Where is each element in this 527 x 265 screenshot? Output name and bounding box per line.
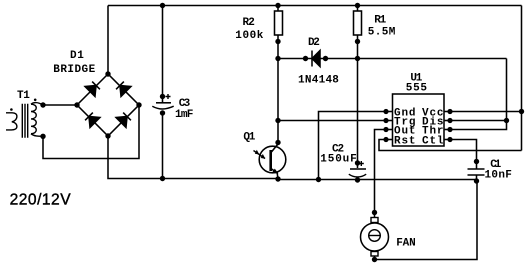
svg-text:T1: T1 [17,90,30,102]
label 5.5M [368,27,396,39]
transistor Q1 [254,140,286,182]
label U1 [410,72,422,84]
label R2 [243,17,256,29]
pin Dis [422,116,453,128]
capacitor C1 [468,159,485,184]
svg-text:100k: 100k [235,30,263,42]
svg-text:BRIDGE: BRIDGE [53,64,95,76]
wire Vcc to right rail [450,109,524,114]
label T1 [17,90,30,102]
label 1N4148 [298,75,339,87]
wire secondary bottom loop [40,105,139,159]
label C3 [179,98,191,110]
svg-text:150uF: 150uF [320,154,357,166]
label 1mF [175,109,193,121]
wire Gnd to ground rail [316,112,386,183]
wire top rail [108,5,522,7]
pin Ctl [422,135,453,147]
label FAN [396,237,416,249]
diode D1c bottom-left [84,112,100,128]
wire Trg to node [278,120,386,122]
label 10nF [485,169,513,181]
wire bottom rail [108,136,477,180]
label 150uF [320,154,357,166]
node bridge top [105,71,110,76]
wire Rst to Vcc rail [379,140,522,151]
svg-text:FAN: FAN [396,237,416,249]
svg-text:1N4148: 1N4148 [298,75,339,87]
svg-text:R1: R1 [374,15,386,27]
label BRIDGE [53,64,95,76]
resistor R2 [275,3,283,59]
pin Out [383,125,415,137]
svg-text:1mF: 1mF [175,109,193,121]
pin Gnd [383,107,415,119]
wire R2 column down [277,59,279,146]
wire Out to fan [372,130,386,216]
label 100k [235,30,263,42]
label D2 [308,37,320,49]
wire Ctl down [450,140,477,162]
motor FAN [361,213,389,263]
transformer T1 [6,99,43,138]
capacitor C3 [152,3,173,181]
bridge rectifier D1 [77,74,139,136]
pin Trg [383,116,415,128]
svg-text:220/12V: 220/12V [10,191,72,208]
svg-text:R2: R2 [243,17,256,29]
label R1 [374,15,386,27]
wire right rail [521,6,523,151]
capacitor C2 [349,59,366,183]
pin Thr [422,125,453,137]
svg-text:Q1: Q1 [243,132,255,144]
diode D1d bottom-right [116,112,132,128]
svg-text:D1: D1 [70,50,84,62]
svg-text:10nF: 10nF [485,169,513,181]
diode D1a top-left [85,81,101,97]
wire D2 row [275,56,506,121]
svg-text:Ctl: Ctl [422,135,444,147]
diode D2 [303,51,328,67]
svg-text:Rst: Rst [394,135,416,147]
label D1 [70,50,84,62]
label 555 [406,83,428,95]
pin Rst [383,135,415,147]
diode D1b top-right [115,81,131,97]
wire bridge top to rail [107,6,109,75]
svg-text:555: 555 [406,83,428,95]
resistor R1 [354,3,362,59]
label C2 [332,143,344,155]
wire fan return [375,181,478,260]
op-amp U1 555 box [393,94,445,146]
node bridge bottom [105,133,110,138]
wire Dis junction [450,118,509,123]
svg-text:5.5M: 5.5M [368,27,396,39]
svg-text:D2: D2 [308,37,320,49]
node Trg tap [275,118,280,123]
node bridge right [136,102,141,107]
label C1 [490,159,501,171]
label 220/12V [10,191,72,208]
wire Thr to Dis node [450,121,507,130]
node bridge left [74,102,79,107]
label Q1 [243,132,255,144]
wire secondary top to bridge [40,102,77,107]
pin Vcc [422,107,453,119]
